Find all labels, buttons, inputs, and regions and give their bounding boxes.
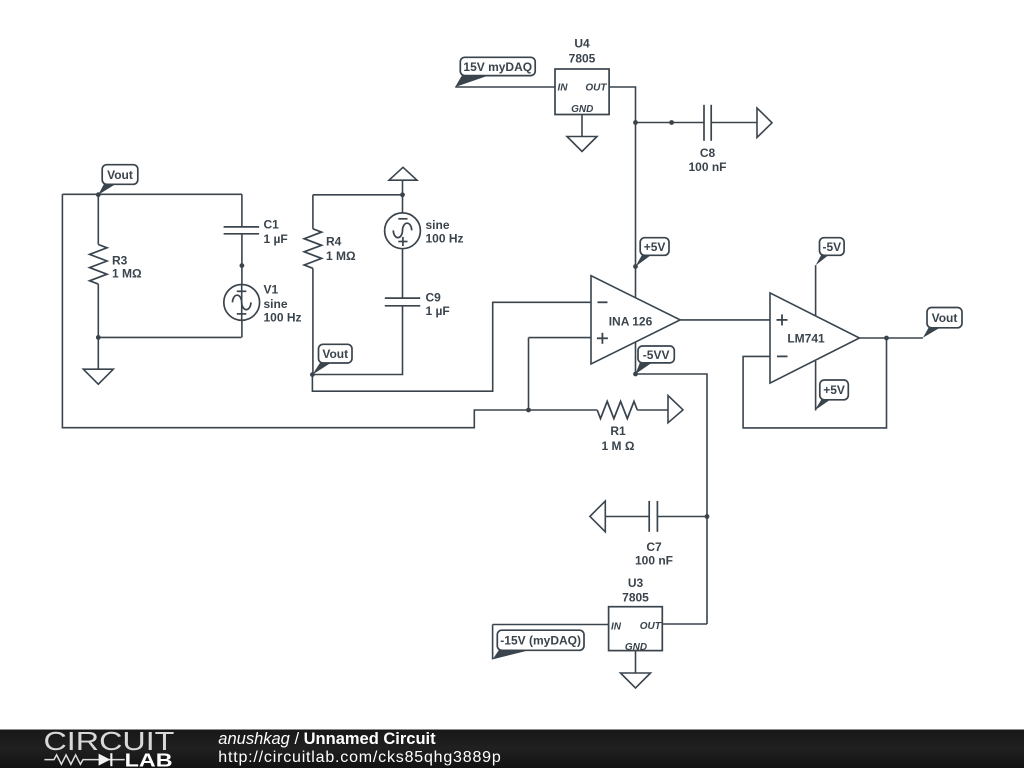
svg-text:sine: sine xyxy=(264,297,288,311)
svg-text:C9: C9 xyxy=(426,291,442,305)
svg-text:GND: GND xyxy=(571,104,593,115)
svg-text:7805: 7805 xyxy=(622,591,649,605)
svg-text:OUT: OUT xyxy=(585,83,607,94)
svg-text:INA 126: INA 126 xyxy=(609,314,653,328)
svg-text:7805: 7805 xyxy=(569,52,596,66)
svg-text:1 µF: 1 µF xyxy=(426,304,450,318)
svg-text:http://circuitlab.com/cks85qhg: http://circuitlab.com/cks85qhg3889p xyxy=(218,749,501,766)
svg-text:sine: sine xyxy=(426,218,450,232)
svg-text:LM741: LM741 xyxy=(787,331,825,345)
svg-text:-5V: -5V xyxy=(822,240,841,254)
svg-text:R3: R3 xyxy=(112,253,128,267)
svg-text:Vout: Vout xyxy=(107,168,133,182)
svg-text:Vout: Vout xyxy=(932,311,958,325)
svg-text:U4: U4 xyxy=(574,37,590,51)
svg-text:1 M Ω: 1 M Ω xyxy=(602,439,635,453)
svg-text:R1: R1 xyxy=(610,424,626,438)
svg-text:-5VV: -5VV xyxy=(643,348,670,362)
svg-text:-15V (myDAQ): -15V (myDAQ) xyxy=(500,634,581,648)
svg-text:anushkag / Unnamed Circuit: anushkag / Unnamed Circuit xyxy=(218,730,436,748)
svg-text:100 nF: 100 nF xyxy=(688,160,726,174)
svg-text:100 nF: 100 nF xyxy=(635,554,673,568)
svg-text:100 Hz: 100 Hz xyxy=(264,310,302,324)
svg-text:1 MΩ: 1 MΩ xyxy=(112,267,142,281)
svg-text:R4: R4 xyxy=(326,234,342,248)
svg-text:GND: GND xyxy=(625,642,647,653)
svg-text:OUT: OUT xyxy=(640,621,662,632)
svg-text:V1: V1 xyxy=(264,283,279,297)
svg-text:100 Hz: 100 Hz xyxy=(426,231,464,245)
svg-text:C1: C1 xyxy=(264,217,280,231)
svg-text:+5V: +5V xyxy=(823,383,845,397)
svg-text:+5V: +5V xyxy=(644,240,666,254)
svg-text:1 MΩ: 1 MΩ xyxy=(326,249,356,263)
svg-text:IN: IN xyxy=(558,83,569,94)
svg-text:U3: U3 xyxy=(628,576,644,590)
svg-text:Vout: Vout xyxy=(322,347,348,361)
svg-text:1 µF: 1 µF xyxy=(264,232,288,246)
svg-text:C8: C8 xyxy=(700,146,716,160)
svg-text:IN: IN xyxy=(611,621,622,632)
svg-text:C7: C7 xyxy=(646,540,662,554)
svg-text:15V myDAQ: 15V myDAQ xyxy=(463,60,532,74)
svg-text:LAB: LAB xyxy=(125,750,173,768)
